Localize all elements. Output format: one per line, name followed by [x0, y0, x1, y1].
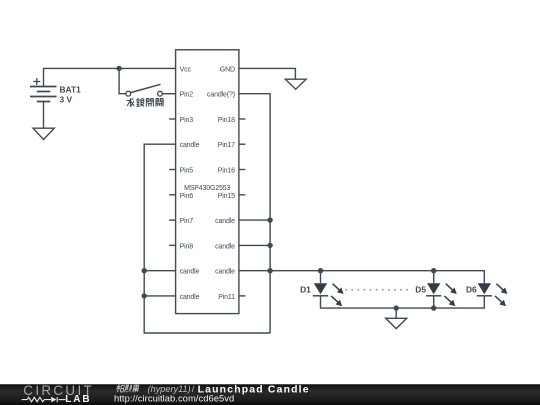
- svg-text:candle: candle: [215, 269, 235, 276]
- wire right candle pin row8 to bus: [239, 244, 270, 246]
- svg-text:candle: candle: [215, 243, 235, 250]
- wire D1 anode: [320, 271, 322, 284]
- wire junction to switch left terminal: [119, 68, 126, 93]
- svg-text:candle: candle: [180, 269, 200, 276]
- node junction battery/switch: [116, 66, 121, 71]
- svg-text:D6: D6: [466, 284, 477, 294]
- svg-text:Pin7: Pin7: [180, 218, 194, 225]
- footer author line: CJK glyphs 柏勳 陳 (italic): [116, 384, 139, 392]
- ellipsis dots: [345, 289, 408, 291]
- node junction left bus row9: [142, 268, 147, 273]
- svg-text:BAT1: BAT1: [60, 84, 82, 94]
- svg-text:candle: candle: [180, 142, 200, 149]
- wire LED rail to ground: [395, 308, 397, 318]
- svg-text:Pin18: Pin18: [218, 117, 235, 124]
- svg-text:MSP430G2553: MSP430G2553: [184, 185, 230, 192]
- wire LED anode rail: [270, 271, 484, 284]
- wire D5 anode: [433, 271, 435, 284]
- wire GND pin to ground symbol: [239, 68, 296, 79]
- node junction D5 cathode: [431, 305, 436, 310]
- svg-text:Pin5: Pin5: [180, 168, 194, 175]
- wire battery plus to Vcc (top rail): [44, 68, 176, 86]
- node junction right bus row7: [267, 217, 272, 222]
- svg-text:http://circuitlab.com/cd6e5vd: http://circuitlab.com/cd6e5vd: [114, 392, 234, 403]
- wire battery minus to ground: [43, 102, 45, 129]
- svg-text:D5: D5: [415, 284, 426, 294]
- node junction right bus row9: [267, 268, 272, 273]
- IC pin labels: [180, 66, 236, 301]
- wire candle(?) pin to right bus: [239, 94, 270, 333]
- svg-text:Pin17: Pin17: [218, 142, 235, 149]
- wire right candle pin row9 to LED rail: [239, 270, 270, 272]
- wire left candle bus vertical: [144, 144, 270, 333]
- svg-text:Pin3: Pin3: [180, 117, 194, 124]
- svg-text:Pin15: Pin15: [218, 193, 235, 200]
- svg-text:Pin8: Pin8: [180, 243, 194, 250]
- ground at GND pin: [285, 79, 306, 89]
- svg-text:GND: GND: [220, 66, 235, 73]
- node junction right bus row8: [267, 243, 272, 248]
- IC pin stubs right (unconnected): [239, 119, 246, 296]
- IC U1 MSP430G2553 body: [176, 50, 239, 314]
- node junction left bus row10: [142, 293, 147, 298]
- svg-text:Pin6: Pin6: [180, 193, 194, 200]
- wire left candle pin row9: [144, 270, 175, 272]
- ground below battery: [33, 128, 54, 139]
- svg-text:Pin11: Pin11: [218, 294, 235, 301]
- battery BAT1: [30, 87, 57, 102]
- svg-text:3 V: 3 V: [60, 94, 73, 104]
- switch label 水銀開關: [127, 98, 163, 106]
- wire left candle pin row10: [144, 295, 175, 297]
- node junction D1 anode: [318, 268, 323, 273]
- svg-text:Pin16: Pin16: [218, 168, 235, 175]
- switch SW (mercury switch): [126, 91, 163, 96]
- wire D5 cathode: [433, 296, 435, 308]
- wire right candle pin row7 to bus: [239, 219, 270, 221]
- node junction D5 anode: [431, 268, 436, 273]
- svg-text:candle(?): candle(?): [207, 92, 235, 99]
- CircuitLab logo: resistor + diode glyph: [22, 397, 66, 402]
- svg-text:D1: D1: [300, 284, 311, 294]
- ground below LED rail: [386, 318, 407, 328]
- LED D1: [300, 283, 344, 306]
- svg-text:Vcc: Vcc: [180, 66, 192, 73]
- wire switch right terminal to Pin2: [162, 93, 175, 95]
- LED D6: [466, 283, 507, 306]
- LED D5: [415, 283, 457, 306]
- IC pin stubs left (unconnected): [169, 119, 175, 245]
- wire LED cathode rail: [321, 296, 485, 308]
- svg-text:candle: candle: [180, 294, 200, 301]
- node junction ground rail: [394, 305, 399, 310]
- svg-text:LAB: LAB: [65, 394, 91, 405]
- svg-text:Pin2: Pin2: [180, 92, 194, 99]
- svg-text:candle: candle: [215, 218, 235, 225]
